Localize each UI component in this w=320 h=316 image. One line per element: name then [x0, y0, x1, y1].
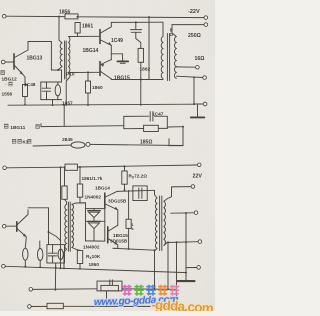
node junction feedback/vertical	[182, 126, 184, 128]
transformer T3 primary winding	[155, 198, 157, 248]
node junction collector chain	[48, 231, 50, 233]
resistor 1857 (oval)	[55, 85, 60, 96]
diode D2 1N4002	[88, 220, 100, 222]
wire R1860 bottom lead	[87, 93, 89, 105]
resistor 1861	[75, 23, 80, 34]
svg-text:1C48: 1C48	[25, 82, 36, 87]
wire top supply rail right section	[78, 16, 204, 19]
transistor 1BG13 base bar	[13, 54, 15, 69]
wire top supply rail left section	[6, 15, 65, 17]
transistor 1BG15 base bar	[99, 62, 101, 76]
capacitor box filter	[133, 186, 147, 201]
svg-text:3DG15B: 3DG15B	[108, 199, 127, 204]
wire T1 secondary bottom lead to mid rail	[66, 79, 68, 105]
wire Rx72 bottom	[124, 184, 126, 190]
wire tap-down left	[167, 242, 169, 289]
svg-text:250Ω: 250Ω	[188, 33, 201, 39]
wire node C to primary winding bottom	[58, 67, 62, 71]
resistor T2b feed	[62, 186, 67, 199]
wire T2 secondary top tap	[172, 25, 204, 37]
svg-text:1856: 1856	[59, 10, 70, 16]
svg-text:1BG15: 1BG15	[114, 76, 130, 82]
svg-text:1556: 1556	[2, 92, 13, 98]
wire stub up	[168, 139, 170, 146]
wire RC to mid rail	[52, 100, 54, 106]
node input terminal 1BG12 link	[1, 60, 5, 64]
wire rail to driver transformer primary	[59, 17, 62, 44]
resistor 185-ohm (bottom branch)	[124, 128, 144, 130]
capacitor C plates	[46, 82, 48, 88]
terminal secondary bottom	[198, 240, 202, 244]
wire emitter return horizontal	[113, 248, 155, 250]
node junction rail/long-vertical	[60, 166, 62, 168]
wire input to base of 1BG13	[5, 61, 14, 63]
wire bottom rail right	[77, 165, 197, 167]
node junction tap/down-wire	[193, 76, 195, 78]
wire T2b secondary bottom to R10K	[72, 248, 80, 251]
svg-text:3D015B: 3D015B	[110, 238, 128, 243]
wire emitters common vertical	[110, 45, 112, 59]
wire resistor to T2b primary	[65, 199, 67, 204]
wire R1.7k bottom	[80, 197, 86, 203]
wire T2b secondary top link	[72, 203, 86, 204]
resistor series (bottom rail)	[65, 164, 77, 170]
node junction rail/primary-feed	[148, 16, 150, 18]
node terminal mid	[86, 142, 90, 146]
wire collector to T3	[117, 190, 155, 191]
node junction bottom-tap-2	[176, 241, 178, 243]
node junction rail/Rx72	[124, 165, 126, 167]
wire node C to RC top	[61, 70, 63, 82]
terminal tap lower	[203, 76, 207, 80]
transistor Q-bl emitter arrow	[23, 234, 26, 237]
wire T3 secondary mid tap	[171, 212, 194, 214]
wire T3 primary top lead	[155, 190, 158, 198]
wire emitter tap to ground	[111, 54, 122, 61]
wire C1C49 top lead	[135, 22, 137, 29]
wire output primary top lead	[162, 22, 164, 36]
node junction C	[57, 69, 59, 71]
wire RC box left edge	[40, 82, 42, 100]
wire ladder rung top	[86, 208, 105, 210]
svg-text:1861/1.7k: 1861/1.7k	[82, 176, 103, 181]
wire feedback upper	[41, 124, 124, 127]
diode D1 1N4002	[93, 209, 95, 211]
svg-text:1860: 1860	[92, 85, 103, 91]
node terminal speaker wire 1	[29, 288, 33, 292]
transformer T1 core	[64, 41, 66, 79]
wire emitter resistor to mid rail	[24, 97, 26, 105]
wire T3 secondary bottom tap	[164, 242, 198, 246]
wire collector 1BG15 to primary bottom	[111, 78, 163, 81]
resistor divider (oval)	[39, 241, 41, 248]
capacitor 1C49	[131, 29, 142, 31]
terminal common	[203, 102, 207, 106]
wire Rx72 stub	[124, 166, 126, 171]
wire RC box top edge	[41, 81, 62, 83]
transformer T3 secondary winding	[164, 201, 166, 245]
wire 1BG13 emitter down	[23, 75, 25, 87]
svg-text:2845: 2845	[62, 137, 73, 143]
transformer T1 secondary winding	[69, 37, 70, 79]
terminal 8ohm tap	[204, 23, 208, 27]
transistor 1BG15 emitter arrow	[101, 64, 105, 67]
svg-text:16Ω: 16Ω	[195, 56, 205, 62]
wire R1862 to mid rail	[140, 62, 142, 105]
svg-text:1BG13: 1BG13	[27, 56, 43, 62]
transformer T3 core	[159, 196, 161, 251]
wire lower feedback right	[90, 144, 183, 145]
wire junction horizontal at node C	[51, 69, 61, 71]
transistor Q-lower collector	[108, 225, 117, 231]
node dots speaker wire	[55, 289, 57, 291]
ground (top circuit right)	[197, 104, 199, 117]
terminal 22V	[197, 163, 201, 167]
node terminal bottom-circuit input	[3, 166, 7, 170]
terminal -22V top right	[204, 16, 208, 20]
ground bar (top circuit)	[117, 60, 128, 62]
label speaker link (Chinese)	[12, 139, 16, 144]
transformer T2b primary winding	[65, 204, 67, 249]
transistor Q-bl base bar	[16, 222, 18, 231]
watermark colored characters row	[122, 285, 131, 296]
wire speaker line 2 right	[63, 305, 176, 307]
ground (bottom right)	[178, 280, 195, 282]
node junction rail/R-stub	[79, 166, 81, 168]
wire emitter resistor to rail	[24, 260, 26, 267]
transformer T2 core	[166, 34, 168, 81]
node junction mid-rail end	[193, 103, 195, 105]
transistor Q-lower emitter arrow	[114, 242, 118, 245]
wire RC box to rail	[54, 263, 56, 290]
label -pole (Chinese)	[5, 82, 13, 87]
svg-text:1BG14: 1BG14	[95, 186, 110, 191]
transformer T2 secondary winding	[175, 37, 177, 79]
svg-text:1BG15: 1BG15	[113, 233, 128, 238]
wire collector 1BG14 to primary top	[111, 21, 163, 23]
resistor 1860	[86, 81, 91, 93]
transformer T2b secondary winding	[72, 204, 74, 247]
resistor 1856 emitter	[23, 85, 28, 97]
transistor Q-upper emitter	[105, 204, 117, 210]
svg-text:1861: 1861	[82, 24, 93, 30]
wire common out	[186, 267, 197, 269]
capacitor+resistor parallel box (bottom-left)	[47, 245, 65, 263]
terminal common out	[197, 266, 201, 270]
wire R10K to bottom rail	[79, 264, 81, 269]
wire long vertical left	[60, 167, 62, 268]
node junction mid-tap	[185, 212, 187, 214]
resistor mid chain	[126, 219, 131, 228]
wire R1861 bottom lead	[77, 33, 79, 36]
svg-text:1BG14: 1BG14	[83, 48, 99, 54]
node junction primary-bottom/return	[154, 249, 156, 251]
wire R1860 top lead	[87, 72, 89, 81]
transistor 1BG13 emitter	[15, 66, 24, 75]
transistor Q-upper collector	[105, 191, 117, 197]
node junction long-vertical/rail	[60, 267, 62, 269]
wire feedback to right vertical	[167, 126, 183, 128]
svg-text:-22V: -22V	[188, 9, 200, 15]
transistor 1BG15 collector	[101, 72, 112, 79]
wire to common terminal	[194, 103, 203, 105]
transistor 1BG14 base bar	[99, 30, 101, 44]
wire junction into RC box	[48, 232, 50, 245]
node terminal speaker wire 2	[28, 305, 32, 309]
wire tap down vertical	[193, 77, 195, 104]
wire RC box right join	[166, 116, 168, 128]
transformer T1 primary winding	[60, 43, 62, 66]
wire collector loop top	[28, 41, 51, 43]
node input terminal top-left	[2, 14, 6, 18]
transistor Q-bl collector	[17, 210, 28, 225]
node junction bottom-tap-1	[167, 241, 169, 243]
wire T2 tap lower	[176, 76, 203, 77]
wire primary feed vertical	[148, 17, 150, 79]
wire right vertical down	[182, 127, 184, 146]
wire mid chain top	[128, 190, 130, 219]
wire T2b primary bottom to rail	[64, 249, 67, 268]
terminal secondary mid	[194, 211, 198, 215]
node junction bottom-tap-3	[185, 241, 187, 243]
wire speaker line 2 left	[31, 305, 47, 307]
wire link line1-line2	[106, 291, 108, 307]
wire ladder rung mid	[86, 220, 105, 222]
wire R1.7k stub	[79, 167, 81, 184]
node junction emitter/rail	[24, 266, 26, 268]
svg-text:1N4002: 1N4002	[83, 245, 100, 250]
node dots bottom-circuit top rail	[64, 166, 66, 168]
node junction rail/R1861	[77, 16, 79, 18]
wire speaker line 1 left	[33, 288, 97, 291]
svg-text:1BG11: 1BG11	[10, 125, 25, 131]
resistor 1856 (on top rail)	[65, 14, 78, 19]
wire speaker line 1 right	[122, 288, 177, 291]
wire emitter down	[25, 237, 26, 248]
wire ladder right vertical	[104, 208, 106, 241]
wire mid chain bottom	[128, 228, 130, 249]
transistor 1BG14 collector	[101, 22, 112, 33]
wire mid-rail tap down	[63, 105, 65, 126]
wire T3 primary bottom down	[155, 248, 158, 288]
node terminal bottom rail	[2, 264, 6, 268]
terminal 16ohm tap	[196, 66, 200, 70]
transistor Q-lower base bar	[107, 227, 109, 243]
label link 1BG11 (Chinese)	[4, 124, 8, 129]
wire T1 secondary top to bases	[69, 35, 100, 37]
transistor Q-upper base bar	[104, 193, 106, 208]
wire collector top horizontal	[28, 207, 49, 209]
svg-text:1BG12: 1BG12	[2, 76, 18, 82]
transistor 1BG13 collector	[15, 42, 29, 58]
svg-text:1860: 1860	[89, 262, 100, 267]
label input-1 (Chinese)	[1, 70, 5, 75]
wire Q-lower emitter down	[113, 245, 118, 248]
wire bottom rail left	[7, 166, 66, 169]
wire RC box bottom edge	[41, 99, 62, 101]
terminal secondary top	[191, 185, 195, 189]
transformer T2b core	[67, 202, 69, 251]
wire T3 secondary top tap	[164, 187, 191, 202]
svg-text:22V: 22V	[193, 174, 203, 180]
node terminal base input	[2, 224, 6, 228]
wire T2 tap 16ohm	[176, 66, 195, 68]
wire junction to oval resistor	[49, 232, 61, 241]
node junction rail/T3-ground	[185, 272, 187, 274]
wire lower feedback left	[33, 144, 71, 147]
resistor 1862	[138, 48, 143, 62]
transistor 1BG15 emitter	[101, 60, 112, 65]
svg-text:1N4002: 1N4002	[85, 195, 102, 200]
resistor Rx72.2	[122, 171, 127, 184]
node junction sec-bottom/R1860	[87, 71, 89, 73]
node junction Rx72/collector wire	[124, 189, 126, 191]
transistor Q-lower emitter	[108, 239, 117, 245]
wire T1 secondary bottom to base 1BG15	[69, 71, 100, 73]
wire ladder left vertical	[85, 203, 87, 241]
transistor Q-upper emitter arrow	[114, 207, 118, 210]
resistor emitter (oval)	[23, 248, 28, 260]
wire bottom rail	[5, 266, 186, 272]
transistor Q-bl emitter	[17, 229, 26, 237]
wire base input	[6, 225, 17, 227]
node junction R1862/primary-bottom wire	[140, 79, 142, 81]
node dots mid-rail	[24, 104, 26, 106]
wire mid rail (ground rail of top circuit)	[8, 104, 194, 105]
transistor 1BG13 emitter arrow	[20, 71, 23, 74]
node junction chain/return	[128, 248, 130, 250]
node junction rail/driver-transformer	[58, 16, 60, 18]
transistor 1BG14 emitter	[101, 40, 112, 45]
svg-text:1C49: 1C49	[111, 38, 123, 44]
resistor 2845 (oval)	[71, 142, 85, 148]
resistor 10K	[77, 251, 82, 264]
wire collector loop right side	[50, 42, 52, 71]
wire tap vertical	[185, 213, 187, 281]
wire T2b feed stub	[64, 167, 66, 186]
transformer T2 primary winding	[161, 37, 163, 79]
wire ladder rung bottom	[86, 240, 105, 242]
wire tap-down mid	[176, 242, 178, 306]
wire C1C49 bottom lead	[136, 32, 141, 48]
node dots bottom rail	[39, 266, 41, 268]
svg-text:185Ω: 185Ω	[140, 139, 152, 145]
wire corner horizontal	[169, 145, 183, 147]
wire collector chain vertical	[48, 208, 50, 232]
capacitor+resistor parallel (speaker line)	[97, 281, 122, 291]
node junction box/rail	[55, 267, 57, 269]
svg-text:1C47: 1C47	[152, 112, 164, 118]
transistor 1BG14 emitter arrow	[108, 42, 112, 45]
resistor 1.7k	[77, 184, 82, 197]
node junction wire/C1C49	[135, 21, 137, 23]
resistor speaker line 2	[47, 303, 63, 308]
wire inter-transistor	[117, 210, 119, 225]
capacitor 1C47 (top branch)	[124, 116, 149, 129]
